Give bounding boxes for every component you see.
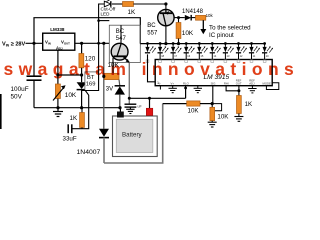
svg-text:OUT: OUT bbox=[236, 82, 242, 86]
thyristor Q3 BT169 bbox=[77, 82, 87, 89]
svg-text:V-: V- bbox=[158, 81, 161, 85]
ground rail bbox=[34, 107, 120, 109]
svg-text:V+: V+ bbox=[171, 81, 175, 85]
wire LED anode bus bbox=[140, 43, 264, 45]
IC pin REF OUT wire bbox=[238, 86, 240, 96]
svg-text:RLO: RLO bbox=[183, 81, 190, 85]
svg-text:ADJ: ADJ bbox=[56, 46, 63, 51]
resistor R8 10K sense bbox=[187, 101, 200, 106]
svg-text:1N4007: 1N4007 bbox=[77, 149, 101, 156]
svg-text:10K: 10K bbox=[65, 92, 77, 99]
capacitor C1 100uF 50V bbox=[27, 75, 42, 77]
svg-text:IC pinout: IC pinout bbox=[209, 32, 234, 39]
IC U2 LM3915 box bbox=[155, 60, 272, 86]
resistor R1 120 bbox=[81, 43, 83, 53]
svg-text:LED: LED bbox=[101, 12, 111, 17]
LED D13 bbox=[249, 42, 260, 62]
wire VIN label to LM338 bbox=[26, 42, 43, 44]
wire BC547 emitter down bbox=[128, 63, 130, 105]
svg-text:VIN: VIN bbox=[45, 40, 51, 46]
IC pin MODE hook bbox=[266, 83, 278, 90]
ground symbol divider bbox=[208, 122, 217, 127]
resistor R2 1K gate bbox=[81, 108, 83, 113]
node rail junction A bbox=[56, 106, 59, 109]
node zener/battery junction bbox=[118, 106, 121, 109]
LED D7 bbox=[171, 42, 182, 62]
svg-text:VOUT: VOUT bbox=[61, 40, 70, 46]
LED D11 bbox=[223, 42, 234, 62]
wire battery bottom bbox=[104, 104, 163, 163]
diode D4 1N4148 bbox=[185, 15, 191, 21]
svg-text:1K: 1K bbox=[70, 115, 78, 122]
battery minus terminal bbox=[117, 112, 124, 118]
resistor R9 10K lower bbox=[211, 104, 213, 108]
IC pin REF ADJ ground bbox=[251, 86, 253, 89]
LED D9 bbox=[197, 42, 208, 62]
wire BC557 collector to LED bus bbox=[165, 25, 167, 43]
wire SCR gate bbox=[72, 91, 89, 129]
svg-text:ADJ: ADJ bbox=[249, 82, 255, 86]
IC pin SIG wire bbox=[212, 86, 214, 104]
LED D12 bbox=[236, 42, 247, 62]
ground symbol ref 1K bbox=[234, 117, 243, 122]
svg-text:MODE: MODE bbox=[263, 81, 272, 85]
IC bottom pin RLO ground bbox=[197, 86, 199, 89]
IC bottom pin labels bbox=[158, 79, 271, 86]
svg-text:VIN ≥ 28V: VIN ≥ 28V bbox=[2, 42, 26, 48]
transistor Q1 BC547 bbox=[120, 25, 122, 43]
wire LM338 output bbox=[75, 42, 110, 44]
battery plus terminal bbox=[146, 108, 153, 115]
edge artifact bbox=[0, 94, 2, 129]
resistor R7 1K ref bbox=[237, 96, 242, 114]
svg-text:33uF: 33uF bbox=[63, 136, 77, 143]
svg-text:50V: 50V bbox=[11, 94, 23, 101]
wire LED feedback to SCR cathode bbox=[82, 4, 105, 91]
IC bottom pin V+ ground bbox=[172, 86, 174, 89]
svg-text:Battery: Battery bbox=[122, 132, 143, 139]
node crossing output bbox=[97, 42, 100, 45]
svg-text:LM338: LM338 bbox=[50, 27, 65, 32]
LED D14 bbox=[262, 42, 273, 62]
wire battery plus terminal bbox=[149, 98, 151, 108]
wire 1K to BC557 emitter bbox=[134, 3, 166, 5]
svg-text:To the selected: To the selected bbox=[209, 25, 251, 32]
IC pin V+ wire to battery bbox=[185, 86, 187, 99]
svg-text:BC: BC bbox=[147, 23, 156, 29]
svg-text:557: 557 bbox=[147, 30, 158, 36]
svg-text:1K: 1K bbox=[245, 101, 253, 108]
svg-text:10K: 10K bbox=[217, 113, 229, 120]
diode D1 1N4007 line bbox=[103, 43, 105, 129]
svg-text:10K: 10K bbox=[182, 30, 194, 37]
arrow to IC pinout bbox=[202, 20, 204, 29]
node rail junction B bbox=[80, 106, 83, 109]
wire divider hook bbox=[212, 104, 221, 111]
svg-text:RHI: RHI bbox=[224, 81, 229, 85]
svg-text:10K: 10K bbox=[188, 107, 200, 114]
wire battery plus rail bbox=[129, 97, 185, 99]
battery B1 bbox=[113, 116, 158, 157]
zener D3 3V bbox=[118, 80, 121, 86]
wire ADJ to 120 bottom bbox=[58, 74, 82, 76]
svg-text:BC: BC bbox=[116, 29, 125, 35]
ground symbol cap bbox=[126, 107, 134, 113]
node 120/SCR junction bbox=[80, 73, 83, 76]
LED D10 bbox=[210, 42, 221, 62]
svg-text:10k: 10k bbox=[206, 13, 214, 18]
wire feedback loop top bbox=[34, 18, 140, 44]
node ADJ junction bbox=[56, 73, 59, 76]
wire BC557 base bbox=[174, 17, 185, 19]
wire LED1 to pin1 bbox=[148, 54, 156, 81]
wire branch to BC547 collector bbox=[99, 20, 110, 22]
node output junction bbox=[80, 42, 83, 45]
IC pin RHI link bbox=[226, 86, 239, 91]
LED D2 cut-off bbox=[104, 1, 111, 7]
regulator U1 LM338 box bbox=[43, 33, 75, 50]
label box BC547 bbox=[109, 25, 140, 62]
svg-text:100uF: 100uF bbox=[11, 86, 29, 93]
LED D5 bbox=[145, 42, 156, 62]
wire LED cathode to 1K bbox=[112, 3, 123, 5]
svg-text:1N4148: 1N4148 bbox=[182, 9, 204, 15]
node input junction bbox=[32, 42, 35, 45]
svg-text:SIG: SIG bbox=[211, 81, 216, 85]
resistor R3 1K top bbox=[123, 2, 134, 7]
svg-text:1K: 1K bbox=[128, 9, 137, 16]
potentiometer P1 10K bbox=[55, 84, 60, 99]
IC bottom pin V- stub bbox=[159, 86, 161, 90]
wire ADJ pin down bbox=[57, 50, 59, 84]
capacitor C2 33uF bbox=[71, 124, 73, 133]
divider wire battery sense bbox=[163, 103, 187, 105]
svg-text:3V: 3V bbox=[106, 87, 113, 93]
resistor R6 10k bbox=[191, 17, 195, 19]
svg-text:169: 169 bbox=[86, 82, 96, 88]
resistor R4 10K base bbox=[105, 73, 120, 79]
resistor R5 10K pullup bbox=[178, 18, 180, 23]
capacitor C3 emitter bbox=[125, 103, 137, 105]
wire input to capacitor bbox=[33, 43, 35, 75]
wire battery minus terminal bbox=[119, 108, 121, 112]
svg-text:swagatam innovations: swagatam innovations bbox=[4, 59, 300, 79]
LED D8 bbox=[184, 42, 195, 62]
ground symbol main bbox=[53, 108, 63, 117]
LED D6 bbox=[158, 42, 169, 62]
wire BC547 base bbox=[112, 58, 114, 73]
label box BT169 bbox=[85, 72, 99, 91]
